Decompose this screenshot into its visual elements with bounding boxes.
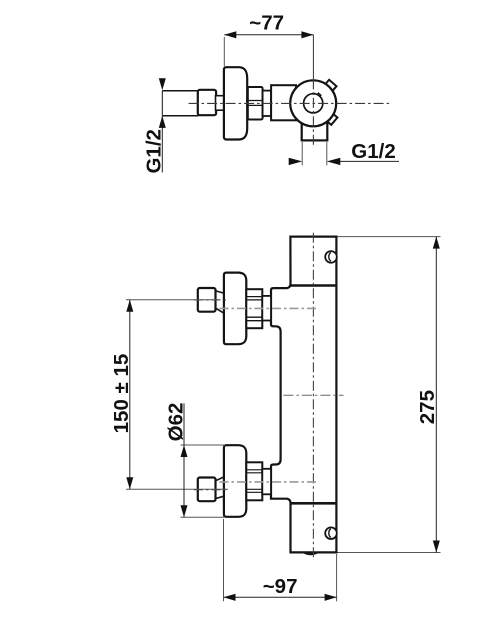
body upper section divider (thick) — [290, 284, 336, 287]
centerline lower nut (dark) — [194, 489, 228, 491]
dim G1/2 outlet leader line — [340, 160, 399, 162]
dim 150±15 line — [129, 300, 131, 490]
shaft between nut and wall flange — [216, 96, 225, 111]
temperature knob outer circle — [290, 80, 336, 126]
svg-text:Ø62: Ø62 — [164, 403, 187, 442]
hex connector (side view) — [248, 87, 263, 120]
dim ~97 line — [224, 596, 337, 598]
outlet stub bump under body — [304, 552, 318, 554]
dim G1/2 outlet extension line right — [326, 142, 328, 165]
dim 275 bottom arrow — [433, 541, 440, 553]
knob index mark — [312, 93, 316, 95]
dim G1/2 outlet left arrow — [289, 158, 303, 165]
dim ~77 right arrow — [301, 31, 313, 38]
svg-text:275: 275 — [416, 390, 439, 424]
upper eccentric cone lower line — [216, 308, 224, 313]
lower screw head side arc — [329, 529, 331, 538]
dim ~97 right arrow — [325, 594, 337, 601]
wall flange escutcheon (side view) — [224, 67, 247, 139]
dim ~77 extension line left — [223, 37, 225, 67]
knob tab lower-right — [326, 113, 337, 124]
centerline horizontal (top view) — [189, 102, 392, 104]
valve body block (side view) — [271, 85, 296, 120]
svg-text:G1/2: G1/2 — [143, 129, 166, 173]
svg-text:~77: ~77 — [249, 12, 284, 35]
hex connector through-shaft line 1 — [246, 100, 263, 102]
lower eccentric cone lower line — [216, 496, 224, 498]
lower eccentric cone upper line — [216, 477, 224, 481]
centerline lower valve (gray) — [220, 481, 317, 483]
dim 275 extension line bottom — [338, 552, 441, 554]
lower hex connector — [246, 462, 262, 500]
wire: inlet pipe top line — [162, 90, 198, 92]
centerline vertical dashed through knob — [312, 79, 314, 144]
faucet body outline — [271, 237, 336, 553]
centerline middle (front view) — [283, 394, 343, 396]
centerline upper valve (gray) — [220, 307, 317, 309]
step adapter (side view) — [263, 91, 272, 116]
dim ~97 extension line left — [223, 519, 225, 601]
dim G1/2 left bottom arrow — [159, 116, 166, 128]
dim Ø62 extension line top — [181, 444, 226, 446]
wire: inlet pipe bottom line — [162, 115, 198, 117]
dim ~77 left arrow — [224, 31, 236, 38]
knob inner circle — [304, 94, 323, 113]
lower union nut — [198, 478, 216, 502]
svg-text:~97: ~97 — [263, 575, 298, 598]
centerline vertical (front view) — [312, 233, 314, 559]
lower wall flange (edge view) — [224, 445, 246, 517]
body lower section divider (thick) — [291, 502, 337, 505]
hex connector through-shaft line 2 — [246, 104, 263, 106]
centerline vertical solid part above knob — [312, 35, 314, 80]
shower outlet stub below knob — [302, 108, 328, 140]
upper screw head — [325, 251, 337, 263]
dim Ø62 bottom arrow — [181, 505, 188, 517]
dim G1/2 outlet extension line left — [301, 142, 303, 165]
knob inner bump — [316, 93, 321, 98]
dim 150±15 top arrow — [126, 300, 133, 312]
svg-text:150 ± 15: 150 ± 15 — [110, 354, 133, 434]
dim 150±15 bottom arrow — [126, 477, 133, 489]
upper step adapter — [262, 296, 271, 321]
dim 275 extension line top — [338, 236, 441, 238]
centerline upper nut (dark) — [194, 299, 228, 301]
upper eccentric cone upper line — [216, 291, 224, 293]
lower hex flat lines — [246, 469, 262, 471]
upper screw head side arc — [329, 252, 331, 261]
union nut (side view) — [198, 90, 216, 115]
lower step adapter — [262, 469, 271, 495]
dim ~77 line — [224, 34, 313, 36]
upper hex flat lines — [246, 296, 262, 298]
knob tab upper-right — [325, 80, 337, 91]
dim 150±15 extension line bottom — [126, 488, 228, 490]
dim G1/2 left top arrow — [159, 78, 166, 90]
upper hex connector — [246, 289, 262, 328]
dim 150±15 extension line top — [126, 299, 219, 301]
dim Ø62 line — [183, 403, 185, 517]
dim ~97 extension line right — [336, 554, 338, 601]
lower screw head — [325, 527, 337, 539]
wire: inlet pipe left end cap — [161, 91, 163, 116]
dim Ø62 extension line bottom — [181, 516, 226, 518]
dim Ø62 top arrow — [181, 445, 188, 457]
upper wall flange (edge view) — [224, 273, 246, 345]
dim ~97 left arrow — [224, 594, 236, 601]
svg-text:G1/2: G1/2 — [351, 140, 395, 163]
upper union nut — [198, 288, 216, 312]
dim 275 line — [435, 237, 437, 553]
dim 275 top arrow — [433, 237, 440, 249]
dim G1/2 outlet right arrow — [327, 158, 341, 165]
dim G1/2 left vertical line — [161, 116, 163, 173]
